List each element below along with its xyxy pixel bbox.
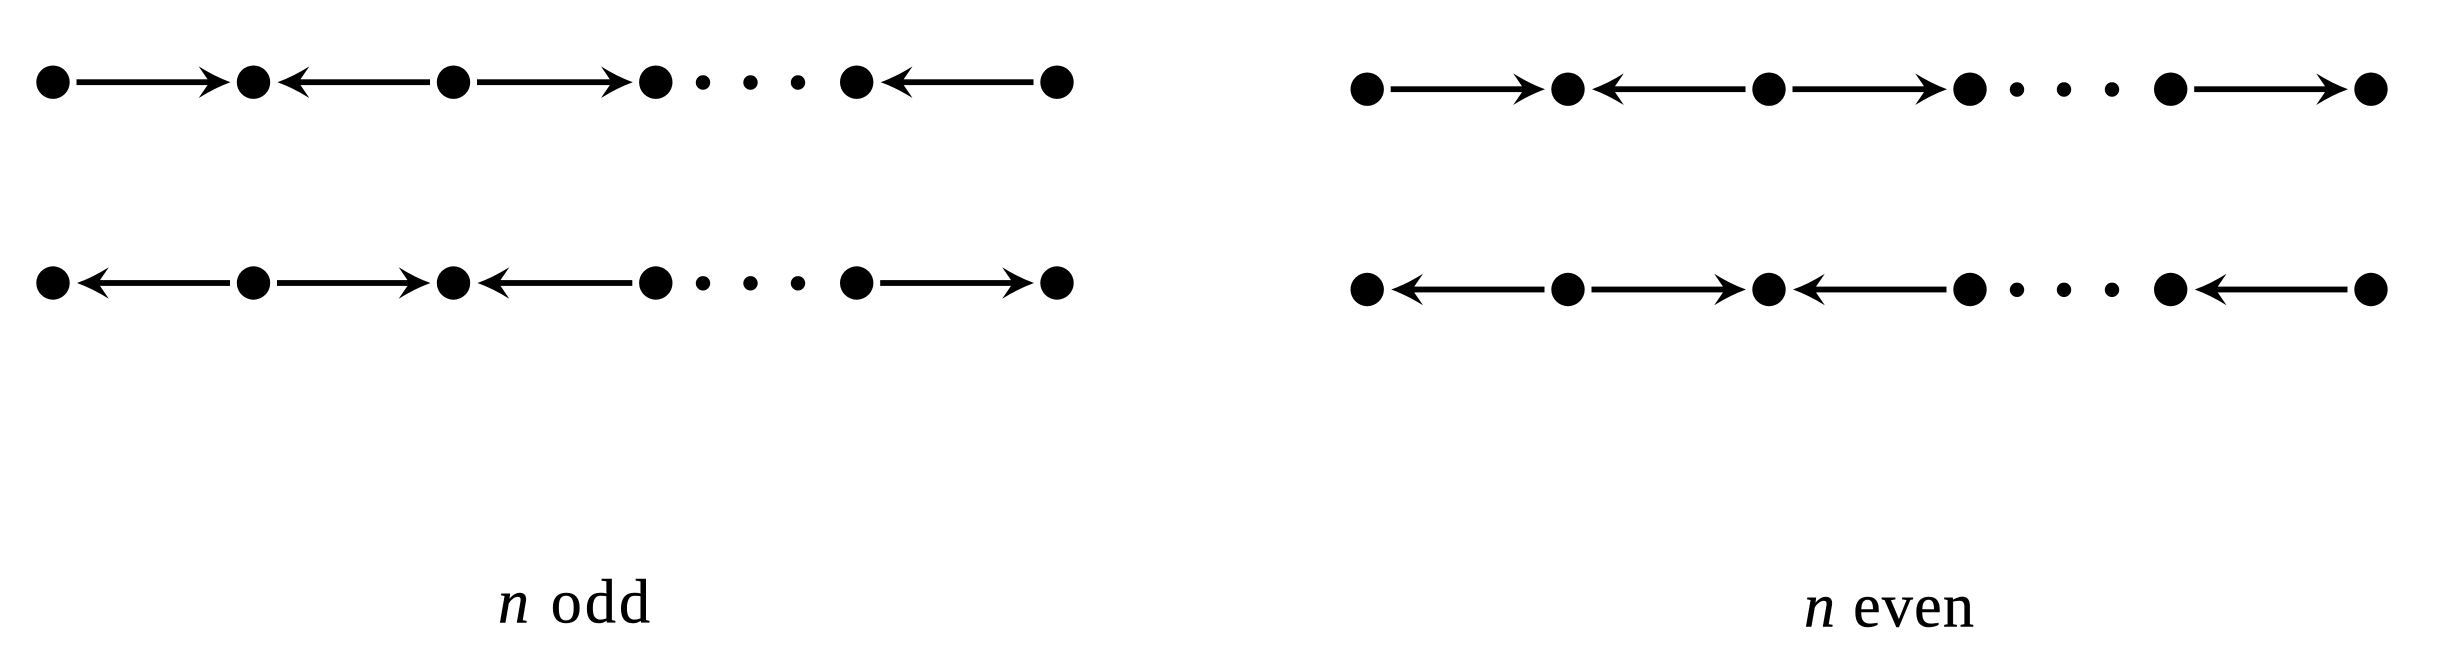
right diagram row 1 vertex 3 [1752, 73, 1785, 106]
left diagram row 2 vertex 6 [1040, 266, 1073, 299]
right row1 arrow 1to2: arrowhead (points right) [1513, 73, 1545, 105]
left diagram row 1 ellipsis dot 3 [791, 75, 805, 89]
left diagram row 2 vertex 2 [237, 266, 270, 299]
left diagram row 2 vertex 4 [639, 266, 672, 299]
right diagram row 1 vertex 6 [2354, 73, 2387, 106]
left row1 arrow 3to4: arrow shaft [477, 79, 612, 85]
left diagram row 2 vertex 1 [36, 266, 69, 299]
right diagram row 2 vertex 6 [2354, 273, 2387, 306]
left diagram row 1 vertex 3 [437, 66, 470, 99]
left diagram row 2 ellipsis dot 3 [791, 276, 805, 290]
left diagram row 1 vertex 4 [639, 66, 672, 99]
right diagram row 2 ellipsis dot 1 [2010, 283, 2024, 297]
right row2 arrow 4to3: arrowhead (points left) [1793, 274, 1825, 306]
right diagram row 2 vertex 3 [1752, 273, 1785, 306]
left diagram row 1 vertex 2 [237, 66, 270, 99]
left diagram row 1 ellipsis dot 2 [743, 75, 757, 89]
left diagram row 1 vertex 5 [840, 66, 873, 99]
right diagram row 2 vertex 2 [1551, 273, 1584, 306]
left row2 arrow 2to3: arrow shaft [277, 280, 410, 286]
right row1 arrow 3to4: arrow shaft [1793, 86, 1927, 92]
right row1 arrow 3to4: arrowhead (points right) [1915, 73, 1947, 105]
svg-text:n even: n even [1804, 572, 1974, 640]
right diagram row 1 vertex 4 [1953, 73, 1986, 106]
right row1 arrow 5to6: arrow shaft [2194, 86, 2327, 92]
left diagram row 2 vertex 5 [840, 266, 873, 299]
left row1 arrow 3to2: arrow shaft [299, 79, 431, 85]
right row2 arrow 2to1: arrow shaft [1412, 287, 1544, 293]
right diagram row 1 ellipsis dot 2 [2057, 82, 2071, 96]
right row2 arrow 2to1: arrowhead (points left) [1391, 274, 1423, 306]
left row2 arrow 5to6: arrowhead (points right) [1002, 267, 1034, 299]
right diagram row 2 vertex 5 [2154, 273, 2187, 306]
left row1 arrow 3to4: arrowhead (points right) [601, 66, 633, 98]
right diagram row 1 vertex 1 [1351, 73, 1384, 106]
right diagram row 1 ellipsis dot 1 [2010, 82, 2024, 96]
right row2 arrow 2to3: arrow shaft [1592, 287, 1726, 293]
right row2 arrow 6to5: arrowhead (points left) [2195, 274, 2227, 306]
left diagram row 1 ellipsis dot 1 [696, 75, 710, 89]
left row2 arrow 2to1: arrow shaft [98, 280, 230, 286]
left row1 arrow 1to2: arrowhead (points right) [199, 66, 231, 98]
right diagram row 2 vertex 4 [1953, 273, 1986, 306]
left row1 arrow 3to2: arrowhead (points left) [278, 66, 310, 98]
right row1 arrow 3to2: arrowhead (points left) [1592, 73, 1624, 105]
right row1 arrow 3to2: arrow shaft [1613, 86, 1746, 92]
left diagram row 2 ellipsis dot 2 [743, 276, 757, 290]
left row1 arrow 1to2: arrow shaft [77, 79, 210, 85]
right diagram row 1 vertex 5 [2154, 73, 2187, 106]
right row1 arrow 5to6: arrowhead (points right) [2316, 73, 2348, 105]
left row2 arrow 4to3: arrow shaft [499, 280, 633, 286]
right diagram row 2 vertex 1 [1351, 273, 1384, 306]
left row1 arrow 6to5: arrowhead (points left) [881, 66, 913, 98]
right diagram row 1 vertex 2 [1551, 73, 1584, 106]
left row2 arrow 4to3: arrowhead (points left) [478, 267, 510, 299]
right diagram row 2 ellipsis dot 3 [2105, 283, 2119, 297]
left diagram row 2 vertex 3 [437, 266, 470, 299]
left diagram row 1 vertex 6 [1040, 66, 1073, 99]
left diagram row 1 vertex 1 [36, 66, 69, 99]
right diagram row 1 ellipsis dot 3 [2105, 82, 2119, 96]
left diagram row 2 ellipsis dot 1 [696, 276, 710, 290]
right row2 arrow 6to5: arrow shaft [2216, 287, 2348, 293]
svg-text:n odd: n odd [498, 569, 650, 637]
left row2 arrow 2to3: arrowhead (points right) [399, 267, 431, 299]
right row2 arrow 2to3: arrowhead (points right) [1714, 274, 1746, 306]
left row1 arrow 6to5: arrow shaft [902, 79, 1034, 85]
left row2 arrow 5to6: arrow shaft [880, 280, 1013, 286]
right diagram row 2 ellipsis dot 2 [2057, 283, 2071, 297]
right row2 arrow 4to3: arrow shaft [1814, 287, 1947, 293]
left row2 arrow 2to1: arrowhead (points left) [77, 267, 109, 299]
right row1 arrow 1to2: arrow shaft [1391, 86, 1524, 92]
